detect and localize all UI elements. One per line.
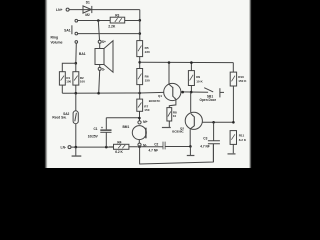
resistor R9: [188, 63, 194, 92]
node junction M- bus: [138, 145, 141, 148]
wire S+ to speaker: [99, 43, 101, 48]
wire R5 to rail node: [139, 57, 141, 69]
svg-text:8.2 K: 8.2 K: [239, 138, 247, 142]
wire R1 to bus: [61, 85, 63, 93]
svg-text:C1: C1: [94, 127, 98, 131]
node S+ terminal: [98, 40, 101, 43]
wire SA1 throw to BA1 divider: [75, 43, 78, 63]
svg-text:R3: R3: [115, 13, 119, 17]
svg-text:4.7 NF: 4.7 NF: [149, 149, 159, 153]
svg-text:150: 150: [144, 108, 149, 112]
wire bus C2 to V2 ground: [165, 146, 190, 148]
node junction R3 left: [97, 19, 100, 22]
wire speaker S+ drop: [98, 21, 99, 41]
wire Q2 top: [190, 92, 192, 112]
resistor R3: [110, 17, 125, 23]
node junction C3 top: [212, 121, 215, 124]
resistor R10: [230, 63, 236, 123]
node junction S- bus: [97, 92, 100, 95]
node S- terminal: [98, 67, 101, 70]
ground under Q2: [187, 146, 195, 156]
switch SA1: [72, 19, 78, 43]
wire right bus upper: [139, 10, 141, 41]
resistor R6: [137, 69, 143, 85]
wire Q1 right to R9 node: [181, 91, 208, 93]
node junction top right: [139, 19, 142, 22]
svg-text:R4: R4: [117, 141, 121, 145]
svg-text:6.2 K: 6.2 K: [115, 150, 123, 154]
ground under R11: [228, 153, 236, 154]
microphone terminal M-: [138, 143, 141, 146]
wire Q2 collector down: [189, 129, 191, 146]
svg-text:D1: D1: [86, 1, 90, 5]
svg-text:Q1: Q1: [158, 94, 162, 98]
node junction R9 rail: [190, 61, 193, 64]
svg-text:M2: M2: [85, 13, 90, 17]
transistor Q1: [164, 83, 181, 100]
wire mid bus: [62, 92, 139, 94]
node junction R10 R11: [232, 121, 235, 124]
wire speaker to S-: [99, 65, 101, 68]
svg-text:C2: C2: [154, 142, 158, 146]
svg-text:R11: R11: [239, 134, 245, 138]
svg-text:S+: S+: [102, 40, 106, 44]
wire bus to reed switch: [75, 93, 77, 111]
svg-text:C3: C3: [203, 136, 207, 140]
diode D1: [83, 6, 92, 13]
wire branch to R2: [75, 63, 77, 71]
svg-text:150 K: 150 K: [238, 79, 247, 83]
wire Q1 base: [140, 91, 164, 94]
svg-text:100: 100: [80, 79, 85, 83]
svg-text:10 K: 10 K: [196, 80, 203, 84]
resistor R5: [137, 41, 143, 57]
capacitor C1: [100, 118, 111, 147]
resistor R7: [137, 99, 143, 111]
terminal LN+: [66, 8, 69, 11]
wire C1 top run: [106, 117, 139, 119]
node junction C1 bus: [105, 146, 108, 149]
wire Q1 emitter to R8: [169, 100, 176, 108]
svg-text:R9: R9: [196, 75, 200, 79]
svg-text:10: 10: [173, 114, 177, 118]
svg-text:LN+: LN+: [56, 8, 63, 12]
ground under reed: [72, 147, 82, 157]
svg-text:M+: M+: [143, 120, 148, 124]
wire bus M- to C2: [138, 146, 163, 148]
node junction C1 R7 mic: [138, 117, 141, 120]
wire SA1 lower row: [78, 33, 140, 35]
svg-text:LN-: LN-: [61, 146, 67, 150]
svg-text:+: +: [101, 126, 103, 130]
svg-text:150: 150: [145, 78, 150, 82]
svg-text:Open Door: Open Door: [200, 98, 217, 102]
resistor R1: [59, 72, 65, 85]
wire R6 to node: [139, 85, 141, 100]
svg-text:S-: S-: [102, 67, 105, 71]
svg-text:2.2K: 2.2K: [108, 24, 116, 28]
wire Q2 base row: [202, 121, 233, 123]
node junction R6 R7: [138, 92, 141, 95]
resistor R11: [230, 131, 236, 154]
node junction reed bus: [75, 146, 78, 149]
speaker BA1: [95, 41, 113, 72]
microphone BM1: [132, 126, 146, 140]
node junction rail left: [138, 61, 141, 64]
svg-text:BA1: BA1: [79, 52, 86, 56]
svg-text:Volume: Volume: [51, 41, 63, 45]
svg-text:Reed Sw.: Reed Sw.: [52, 116, 66, 120]
svg-text:4.7 NF: 4.7 NF: [200, 145, 210, 149]
resistor R2: [73, 72, 79, 85]
wire reed to bottom bus: [75, 124, 77, 147]
node junction Q2 collector bus: [189, 145, 192, 148]
capacitor C2: [163, 142, 165, 150]
svg-text:100: 100: [66, 79, 71, 83]
resistor R8: [167, 108, 172, 121]
svg-text:10/25V: 10/25V: [88, 134, 99, 138]
wire top rail: [69, 9, 140, 11]
transistor Q2: [185, 112, 202, 129]
terminal LN-: [68, 146, 71, 149]
svg-text:BM1: BM1: [123, 125, 130, 129]
wire bottom bus left: [71, 146, 114, 148]
node junction mid right: [139, 32, 142, 35]
node junction R2 bus: [75, 92, 78, 95]
resistor R4: [109, 144, 138, 149]
reed switch SA2: [73, 111, 78, 124]
left black bar: [0, 0, 45, 168]
node junction R9 SB1 Q2: [190, 91, 193, 94]
wire Q1 collector: [168, 63, 170, 85]
node junction R1 R2: [75, 62, 78, 65]
wire S- to bus: [99, 70, 100, 93]
wire mic to M-: [138, 140, 140, 143]
ground under R8: [162, 121, 171, 128]
wire M- to C3 bottom run: [140, 144, 214, 164]
right black bar: [249, 0, 252, 168]
svg-text:220: 220: [145, 50, 150, 54]
svg-text:BC858C: BC858C: [172, 130, 184, 134]
svg-text:SA1: SA1: [64, 28, 71, 32]
switch SB1: [204, 88, 224, 98]
node junction Q1 collector rail: [168, 61, 171, 64]
wire branch to R1: [62, 63, 76, 71]
svg-text:BC847C: BC847C: [149, 99, 161, 103]
wire R7 to mic node: [139, 111, 141, 120]
wire supply rail: [140, 61, 234, 63]
svg-text:Ring: Ring: [51, 35, 59, 39]
wire R3 row: [78, 20, 140, 22]
wire R2 to bus: [75, 85, 77, 93]
node junction Q1 right: [181, 91, 184, 94]
microphone terminal M+: [138, 121, 141, 124]
capacitor C3: [208, 122, 220, 162]
